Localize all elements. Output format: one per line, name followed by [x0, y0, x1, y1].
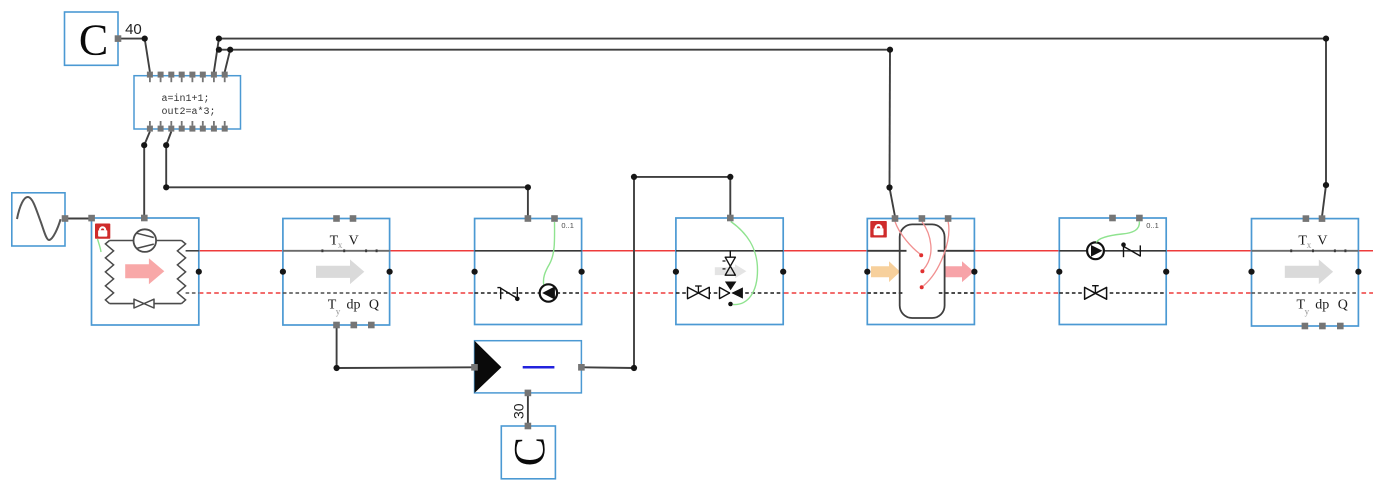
- heat pump lock icon: [95, 224, 110, 239]
- svg-text:Q: Q: [1338, 298, 1348, 313]
- svg-text:V: V: [1317, 233, 1327, 248]
- box6 pump (circle with right triangle): [1087, 242, 1104, 259]
- net return line (red dashed): [199, 292, 1373, 294]
- port C1 out: [115, 35, 122, 42]
- svg-text:V: V: [349, 233, 359, 248]
- tank sensor curve 2: [922, 222, 931, 270]
- node at C1 wire bend: [142, 36, 148, 42]
- port heat pump top-left (control in): [88, 215, 95, 222]
- box4 left shut-off valve (bowtie with stem): [688, 287, 710, 298]
- box6 shut-off valve on return (bowtie with stem): [1085, 287, 1107, 299]
- heat pump control line (green): [98, 239, 102, 252]
- heat pump compressor circle: [134, 229, 157, 252]
- ports box6 top: [1109, 215, 1116, 222]
- svg-text:0..1: 0..1: [1146, 221, 1159, 230]
- wire inverter bottom to constant C2: [527, 395, 529, 424]
- wire calculator out1 to heat pump top port: [144, 132, 150, 146]
- flow sensor block (right) outline: [1252, 219, 1359, 326]
- box6 supply line: [1059, 250, 1166, 252]
- tank sensor curve 3: [924, 222, 949, 286]
- tank supply line stubs: [867, 250, 906, 252]
- flow sensor box2 internals (lines, arrow, T V dp Q labels): [283, 250, 390, 252]
- heat pump internal supply/return stubs: [186, 250, 199, 252]
- wire sensor box2 bottom port to inverter input: [336, 327, 338, 369]
- heat pump expansion valve (bowtie): [134, 299, 154, 308]
- calculator top input pins 1-8: [147, 72, 228, 83]
- node wire B junctions: [216, 47, 222, 53]
- heat pump pink flow arrow: [125, 258, 164, 284]
- port sine out: [62, 215, 69, 222]
- sine wave source block: [12, 193, 65, 246]
- constant block C1 (top left, letter C): [65, 12, 119, 65]
- flow sensor box7 internals (lines, arrow, T V dp Q labels): [1252, 250, 1359, 252]
- net supply line (red solid): [199, 250, 1373, 252]
- return pump block outline: [475, 219, 582, 325]
- port box4 top: [727, 215, 734, 222]
- wire calculator out3 to pump block (box3) top port: [166, 132, 171, 146]
- svg-text:x: x: [338, 240, 343, 250]
- box4 node below valve: [728, 302, 733, 307]
- ports box7 bottom: [1302, 323, 1309, 330]
- box4 supply line: [676, 250, 783, 252]
- ports box7 top: [1303, 215, 1310, 222]
- svg-text:out2=a*3;: out2=a*3;: [162, 106, 216, 118]
- box4 vertical valve (hourglass): [725, 257, 735, 275]
- box4 filled down triangle: [725, 282, 737, 291]
- wire B calculator out8 to storage tank top port: [225, 50, 231, 72]
- wire inverter output up to valve block (box4) top port: [584, 366, 635, 369]
- flow sensor block (left) outline: [283, 219, 390, 326]
- node calculator out1 bend: [141, 142, 147, 148]
- svg-text:y: y: [336, 307, 341, 317]
- svg-text:30: 30: [510, 403, 526, 419]
- node bend under box2: [334, 365, 340, 371]
- port inverter right: [578, 364, 585, 371]
- box3 green control line: [543, 222, 554, 285]
- svg-text:C: C: [79, 16, 108, 65]
- storage tank block outline: [867, 219, 974, 325]
- label 30 (rotated): [510, 403, 526, 419]
- svg-text:x: x: [1307, 240, 1312, 250]
- heat pump condenser coil (right zigzag): [177, 241, 185, 304]
- box4 return dashed line: [676, 292, 783, 294]
- port C2 top: [525, 423, 532, 430]
- node wire A start: [216, 36, 222, 42]
- box3 pump (circle with left triangle): [540, 284, 557, 301]
- wire sine source to heat pump: [67, 218, 90, 220]
- box4 three-way valve triangles on return line: [720, 287, 730, 298]
- heat pump loop top line: [110, 240, 134, 242]
- node inverter output bends: [631, 365, 637, 371]
- tank sensor curve 1: [895, 222, 920, 255]
- ports box3 top: [525, 215, 532, 222]
- box4 branch from supply down: [729, 251, 731, 257]
- node out3 bend: [163, 142, 169, 148]
- wire constant C1 out to calculator in1: [121, 38, 145, 40]
- tank vessel outline: [900, 224, 945, 318]
- tank return dashed stubs: [867, 292, 902, 294]
- heat pump evaporator coil (left zigzag): [105, 241, 113, 304]
- calculator bottom output pins 1-8: [147, 121, 228, 132]
- svg-text:a=in1+1;: a=in1+1;: [162, 93, 210, 105]
- box4 green control loop: [731, 222, 758, 305]
- port inverter left: [471, 364, 478, 371]
- supply pump block outline: [1059, 218, 1166, 325]
- svg-text:0..1: 0..1: [561, 221, 574, 230]
- svg-text:40: 40: [125, 21, 142, 38]
- calculator block (a=in1+1; out2=a*3;): [134, 76, 241, 129]
- ports box2 bottom: [333, 322, 340, 329]
- tank orange inlet arrow: [871, 261, 900, 282]
- constant block C2 (rotated C): [501, 426, 555, 479]
- box3 supply line: [475, 250, 582, 252]
- heat pump loop bottom line: [110, 303, 135, 305]
- port heat pump top-center: [141, 215, 148, 222]
- tank pink outlet arrow: [945, 261, 974, 282]
- svg-text:dp: dp: [347, 298, 361, 313]
- box4 faded gray arrow: [715, 264, 747, 278]
- svg-text:C: C: [505, 437, 554, 466]
- heat pump block outline: [92, 218, 199, 325]
- box6 return dashed line: [1059, 292, 1166, 294]
- ports tank top: [892, 215, 899, 222]
- inverter/gain block: [475, 341, 582, 393]
- port inverter bottom: [525, 390, 532, 397]
- svg-text:y: y: [1305, 307, 1310, 317]
- wire A calculator out7 to sensor box7 top port: [214, 39, 219, 72]
- tank lock icon: [870, 221, 887, 238]
- box6 green control line: [1096, 222, 1139, 243]
- bus junction dots on block edges: [196, 269, 1362, 275]
- svg-text:Q: Q: [369, 298, 379, 313]
- box3 check valve symbol: [497, 287, 500, 289]
- box3 return dashed line: [475, 292, 582, 294]
- three-way valve block outline: [676, 218, 783, 325]
- box6 check valve symbol: [1121, 242, 1126, 247]
- ports box2 top: [333, 215, 340, 222]
- svg-text:dp: dp: [1315, 298, 1329, 313]
